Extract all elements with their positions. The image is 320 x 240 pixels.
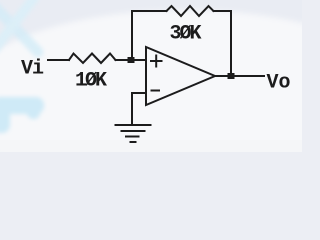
- op-amp U1: [146, 47, 215, 105]
- wire R1 to op-amp + input: [116, 59, 147, 61]
- op-amp + input marker: [151, 56, 162, 67]
- wire top right run and right vertical down to output: [214, 11, 232, 76]
- watermark h bottom-left (decorative): [0, 97, 44, 133]
- svg-text:3ØK: 3ØK: [170, 23, 202, 46]
- wire feedback left vertical and top run: [132, 11, 167, 60]
- resistor R1 10K: [69, 54, 116, 64]
- node B output junction dot: [228, 73, 235, 79]
- watermark X top-left (decorative): [0, 0, 38, 52]
- node A junction dot: [128, 57, 135, 63]
- op-amp - input marker: [152, 90, 160, 92]
- svg-text:1ØK: 1ØK: [75, 70, 107, 93]
- wire op-amp output to Vo: [215, 75, 264, 77]
- svg-text:Vi: Vi: [21, 58, 44, 81]
- resistor R2 30K: [167, 6, 214, 16]
- wire Vi to R1: [48, 59, 69, 61]
- svg-text:Vo: Vo: [267, 72, 291, 95]
- ground: [116, 125, 151, 142]
- wire op-amp - input to ground: [132, 93, 146, 124]
